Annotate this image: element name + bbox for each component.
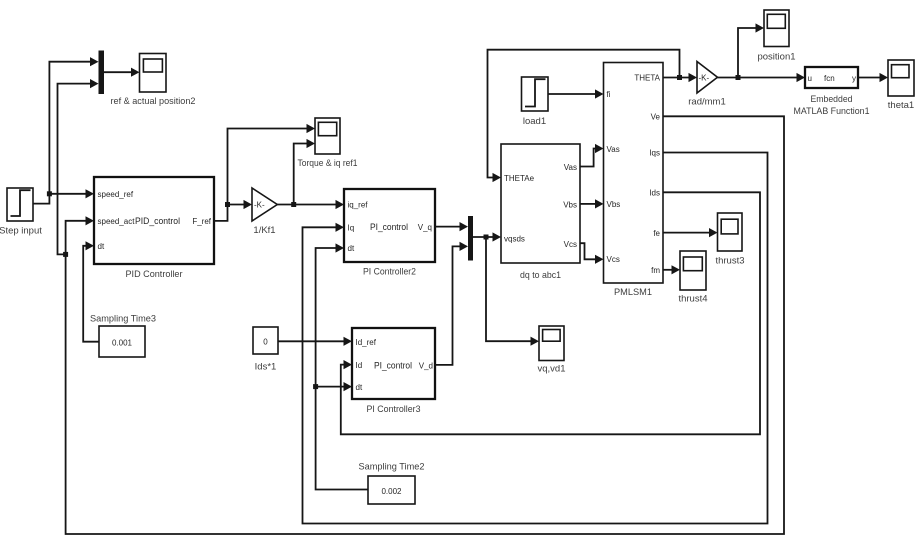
svg-text:u: u bbox=[808, 74, 812, 83]
svg-text:PID_control: PID_control bbox=[135, 216, 180, 227]
svg-text:ref & actual position2: ref & actual position2 bbox=[111, 96, 196, 107]
wire mux1 to scope bbox=[104, 68, 140, 77]
svg-text:rad/mm1: rad/mm1 bbox=[688, 97, 725, 108]
svg-text:-K-: -K- bbox=[699, 74, 710, 83]
svg-text:Sampling Time2: Sampling Time2 bbox=[359, 462, 425, 473]
svg-text:1/Kf1: 1/Kf1 bbox=[253, 225, 275, 236]
svg-text:PI Controller2: PI Controller2 bbox=[363, 267, 416, 278]
wire Vbs bbox=[580, 199, 604, 208]
scope ref & actual position2 bbox=[140, 54, 167, 93]
junction mux2 output bbox=[484, 235, 489, 240]
svg-text:iq_ref: iq_ref bbox=[348, 201, 369, 210]
junction gain output bbox=[291, 202, 296, 207]
scope thrust3 bbox=[718, 213, 743, 251]
svg-text:thrust3: thrust3 bbox=[715, 256, 744, 267]
wire step output to mux1 and speed_ref bbox=[33, 57, 99, 204]
label Embedded MATLAB Function1 bbox=[794, 94, 870, 117]
svg-text:PID Controller: PID Controller bbox=[126, 269, 183, 280]
subsystem block PI Controller2 bbox=[344, 189, 435, 262]
subsystem block dq to abc1 bbox=[501, 144, 580, 263]
junction dt line bbox=[313, 384, 318, 389]
svg-text:Ids*1: Ids*1 bbox=[255, 362, 277, 373]
svg-text:position1: position1 bbox=[757, 52, 795, 63]
svg-text:Vas: Vas bbox=[607, 145, 620, 154]
svg-text:vq,vd1: vq,vd1 bbox=[538, 364, 566, 375]
svg-text:y: y bbox=[852, 74, 856, 83]
svg-text:speed_ref: speed_ref bbox=[98, 190, 134, 199]
wire F_ref to gain and torque scope bbox=[214, 124, 315, 221]
source block Step input bbox=[7, 188, 33, 221]
svg-text:PI_control: PI_control bbox=[370, 222, 408, 233]
svg-text:Vcs: Vcs bbox=[607, 255, 620, 264]
svg-text:PI_control: PI_control bbox=[374, 360, 412, 371]
gain 1/Kf1 bbox=[252, 188, 277, 221]
svg-text:load1: load1 bbox=[523, 116, 546, 127]
constant block Ids*1 bbox=[253, 327, 278, 354]
wire V_q to mux2 bbox=[435, 222, 468, 231]
wire Iqs feedback to PI2 Iq bbox=[303, 153, 768, 524]
svg-text:dt: dt bbox=[98, 242, 105, 251]
function block Embedded MATLAB Function1 bbox=[805, 67, 858, 88]
svg-text:Id_ref: Id_ref bbox=[356, 338, 377, 347]
wire sampling time2 to PI2 dt and PI3 dt bbox=[316, 243, 368, 489]
svg-text:-K-: -K- bbox=[254, 201, 265, 210]
wire Embedded output to theta1 bbox=[858, 73, 888, 82]
svg-text:Vbs: Vbs bbox=[563, 201, 577, 210]
svg-text:0: 0 bbox=[263, 338, 268, 347]
svg-text:0.002: 0.002 bbox=[381, 487, 402, 496]
svg-text:vqsds: vqsds bbox=[504, 235, 525, 244]
wire Ve feedback to speed_act and mux1 bbox=[58, 79, 785, 534]
wire fm to thrust4 bbox=[663, 265, 680, 274]
svg-text:theta1: theta1 bbox=[888, 100, 914, 111]
wire fe to thrust3 bbox=[663, 228, 718, 237]
mux Mux1 bbox=[99, 51, 105, 95]
svg-text:fi: fi bbox=[607, 90, 611, 99]
svg-text:speed_act: speed_act bbox=[98, 217, 136, 226]
svg-text:dq to abc1: dq to abc1 bbox=[520, 270, 561, 281]
svg-text:THETA: THETA bbox=[634, 73, 660, 82]
junction position branch bbox=[736, 75, 741, 80]
wire Ids feedback to PI3 Id bbox=[341, 192, 760, 434]
wire rad/mm1 to Embedded MATLAB Function1 and position1 bbox=[718, 23, 806, 82]
subsystem block PMLSM1 bbox=[604, 63, 664, 284]
svg-text:F_ref: F_ref bbox=[192, 217, 211, 226]
wire sampling time3 to PID dt bbox=[83, 241, 99, 342]
svg-text:Ids: Ids bbox=[649, 189, 660, 198]
wire load1 to fi bbox=[548, 89, 604, 98]
junction step/speed_ref bbox=[47, 191, 52, 196]
svg-text:V_q: V_q bbox=[418, 223, 432, 232]
svg-text:Sampling Time3: Sampling Time3 bbox=[90, 314, 156, 325]
scope position1 bbox=[764, 10, 789, 47]
svg-text:Torque & iq ref1: Torque & iq ref1 bbox=[298, 158, 358, 169]
svg-text:PI Controller3: PI Controller3 bbox=[367, 404, 421, 415]
svg-text:dt: dt bbox=[348, 244, 355, 253]
svg-text:dt: dt bbox=[356, 383, 363, 392]
svg-text:Iqs: Iqs bbox=[649, 149, 660, 158]
svg-text:PMLSM1: PMLSM1 bbox=[614, 287, 652, 298]
junction Ve branch bbox=[63, 252, 68, 257]
wire gain output to PI2 iq_ref and torque scope bbox=[277, 139, 344, 209]
svg-text:fcn: fcn bbox=[824, 74, 835, 83]
svg-text:fm: fm bbox=[651, 266, 660, 275]
source block load1 bbox=[522, 77, 549, 111]
wire constant to PI3 Id_ref bbox=[278, 337, 352, 346]
subsystem block PID Controller bbox=[94, 177, 214, 264]
svg-text:THETAe: THETAe bbox=[504, 174, 535, 183]
scope thrust4 bbox=[680, 251, 706, 290]
wire V_d to mux2 bbox=[435, 242, 468, 365]
svg-text:Iq: Iq bbox=[348, 224, 355, 233]
wire Vcs bbox=[580, 243, 604, 264]
subsystem block PI Controller3 bbox=[352, 328, 435, 399]
constant block Sampling Time3 bbox=[99, 326, 145, 357]
svg-text:Vbs: Vbs bbox=[607, 200, 621, 209]
svg-text:V_d: V_d bbox=[419, 361, 433, 370]
svg-text:Vcs: Vcs bbox=[564, 240, 577, 249]
svg-text:Id: Id bbox=[356, 361, 363, 370]
gain rad/mm1 bbox=[697, 62, 718, 94]
scope Torque & iq ref1 bbox=[315, 118, 340, 154]
svg-text:Step input: Step input bbox=[0, 226, 42, 237]
wire mux2 to vqsds and vq,vd1 scope bbox=[473, 232, 539, 345]
svg-text:Vas: Vas bbox=[564, 163, 577, 172]
svg-text:Embedded: Embedded bbox=[811, 94, 853, 105]
scope vq,vd1 bbox=[539, 326, 564, 361]
svg-text:0.001: 0.001 bbox=[112, 339, 133, 348]
svg-text:fe: fe bbox=[653, 229, 660, 238]
junction THETA branch bbox=[677, 75, 682, 80]
scope theta1 bbox=[888, 60, 914, 96]
wire THETA feedback to THETAe bbox=[488, 50, 680, 182]
wire THETA to rad/mm1 bbox=[663, 73, 697, 82]
svg-text:thrust4: thrust4 bbox=[678, 294, 707, 305]
wire Vas bbox=[580, 144, 604, 167]
svg-text:MATLAB Function1: MATLAB Function1 bbox=[794, 106, 870, 117]
mux Mux2 bbox=[468, 216, 473, 261]
constant block Sampling Time2 bbox=[368, 476, 415, 504]
junction F_ref/gain bbox=[225, 202, 230, 207]
svg-text:Ve: Ve bbox=[651, 113, 661, 122]
